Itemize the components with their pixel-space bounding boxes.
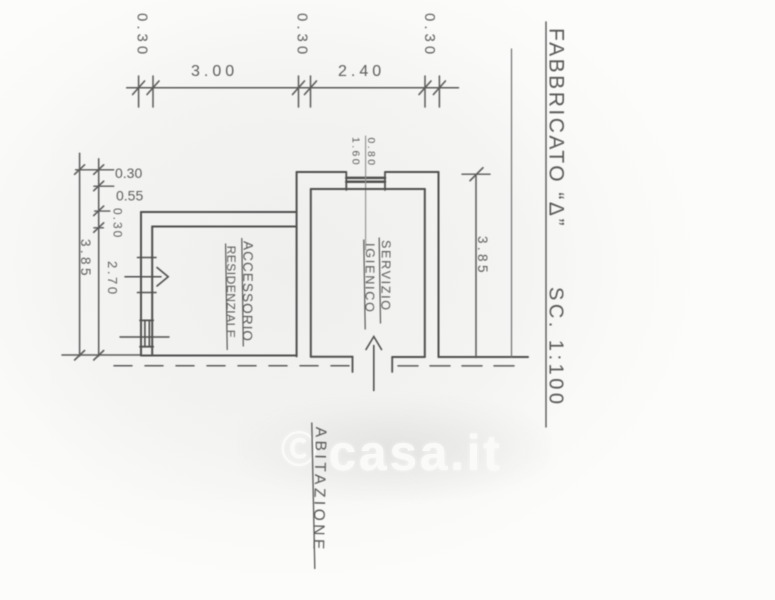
middle room top window band [346,178,385,182]
svg-text:3.00: 3.00 [191,63,238,80]
svg-text:0.30: 0.30 [294,13,311,58]
svg-text:FABBRICATO “Δ”: FABBRICATO “Δ” [545,28,568,228]
middle room outer right wall [438,172,440,357]
svg-text:0.80: 0.80 [365,138,377,168]
paper shading [50,0,570,500]
door jamb left [352,357,354,372]
right dim top tick [462,173,490,175]
middle room inner left wall [310,189,312,357]
left dim line outer (3.85) [79,153,81,356]
svg-text:0.30: 0.30 [111,208,125,239]
underline IGIENICO [364,240,365,329]
left dim tick y=227.8 [94,227,104,229]
underline SERVIZIO [379,238,380,323]
middle room outer left wall [296,172,298,356]
left wall door arrow [125,276,161,278]
left dim tick y=211.1 [95,210,110,212]
dashed base line left part [114,365,352,367]
svg-text:2.40: 2.40 [338,63,385,80]
middle room inner right wall [424,189,426,357]
title underline [545,22,547,427]
left dim tick y=169.8 [76,169,114,171]
bottom line right of room [439,356,529,358]
window centerline [365,136,367,250]
left room inner left wall [151,227,153,356]
left room outer top wall [141,211,297,213]
middle room inner top wall [311,188,425,190]
watermark text casa.it [281,421,581,482]
left wall window symbol [145,320,149,346]
svg-text:1.60: 1.60 [350,137,362,167]
top dim tick middle wall pair [299,76,311,107]
left room inner top wall [152,226,296,228]
window long tick [120,336,169,338]
underline ABITAZIONE [312,423,315,569]
top dim tick left wall pair [139,76,153,107]
svg-text:0.30: 0.30 [115,165,142,181]
plan border line right [511,49,513,358]
svg-text:0.30: 0.30 [134,13,151,58]
middle room outer top wall [297,171,439,173]
right dim line 3.85 [475,174,477,357]
left wall door tick lower [138,292,157,294]
left wall door tick upper [138,257,157,259]
svg-text:0.30: 0.30 [421,13,438,58]
underline ACCESSORIO [242,239,244,347]
svg-text:3.85: 3.85 [78,239,93,279]
middle room inner bottom wall left of door [311,356,353,358]
svg-text:2.70: 2.70 [105,261,120,297]
svg-text:3.85: 3.85 [475,236,490,276]
left room outer left wall [140,212,142,356]
underline RESIDENZIALE [226,244,228,350]
top dim tick right wall pair [425,76,439,107]
left room bottom wall [141,355,297,357]
middle room inner bottom wall right of door [392,356,425,358]
top dimension line [127,87,459,89]
watermark blob [240,398,550,498]
middle room top window jambs [346,173,385,190]
left dim line inner [98,159,100,356]
dashed base line right part [398,365,520,367]
left dim tick y=186.2 [94,185,114,187]
svg-text:0.55: 0.55 [116,188,143,204]
svg-text:SC. 1:100: SC. 1:100 [545,287,567,407]
left dim bottom closing line [62,354,141,356]
door jamb right [391,357,393,372]
entry arrow [373,346,375,391]
